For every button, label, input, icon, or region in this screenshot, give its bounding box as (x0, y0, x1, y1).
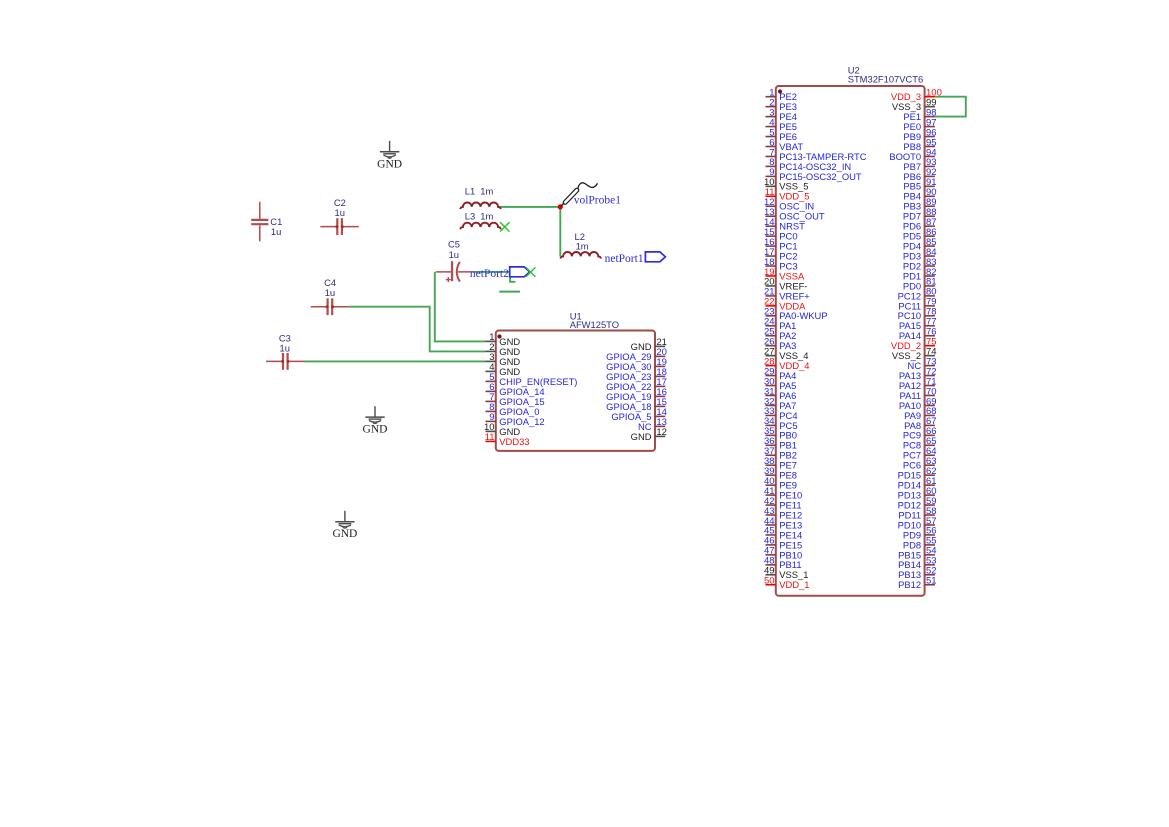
inductor L2 (561, 231, 601, 259)
U2 pin 32 PA7 (764, 396, 796, 411)
svg-text:L1: L1 (465, 186, 475, 197)
U2 pin 76 PA14 (899, 327, 937, 342)
U1 body (496, 331, 655, 451)
svg-text:netPort1: netPort1 (605, 253, 644, 265)
inductor L1 (460, 186, 500, 210)
U2 pin 31 PA6 (764, 386, 796, 401)
capacitor C4 (311, 277, 349, 315)
U2 reference label (848, 65, 924, 85)
U2 pin 43 PE12 (764, 506, 802, 521)
U2 pin 88 PD7 (903, 207, 937, 222)
U2 pin 38 PE7 (764, 456, 797, 471)
U2 pin 33 PC4 (764, 406, 798, 421)
U1 pin 10 GND (484, 422, 520, 437)
svg-text:STM32F107VCT6: STM32F107VCT6 (848, 74, 924, 85)
U2 pin 12 OSC_IN (764, 197, 814, 212)
svg-text:volProbe1: volProbe1 (574, 194, 622, 206)
svg-text:12: 12 (656, 427, 667, 438)
U2 pin 79 PC11 (898, 297, 936, 312)
U2 pin 69 PA10 (899, 396, 937, 411)
wire C3 to U1 pin3 (305, 360, 486, 362)
svg-text:GND: GND (332, 528, 357, 540)
U2 pin 96 PB9 (903, 127, 936, 142)
U2 pin 11 VDD_5 (765, 187, 810, 202)
U2 pin 62 PD15 (898, 466, 937, 481)
wire C5 to U1 pin1 (435, 272, 486, 342)
svg-text:VDD_1: VDD_1 (779, 579, 809, 590)
U2 pin 78 PC10 (898, 307, 937, 322)
U2 pin 46 PE15 (764, 536, 802, 551)
U2 pin 34 PC5 (764, 416, 798, 431)
U2 pin 92 PB6 (903, 167, 936, 182)
U2 pin 14 NRST (764, 217, 805, 232)
U2 pin 24 PA1 (764, 317, 796, 332)
U2 pin 4 PE5 (766, 117, 798, 132)
U1 pin 12 GND (631, 427, 667, 442)
wire L1 to junction (500, 206, 561, 208)
U2 pin 73 NC (908, 356, 937, 371)
U2 pin 15 PC0 (764, 227, 798, 242)
U2 pin 47 PB10 (764, 546, 802, 561)
U2 pin 95 PB8 (903, 137, 936, 152)
svg-text:1m: 1m (576, 240, 589, 251)
U2 pin 97 PE0 (903, 117, 936, 132)
no-connect X on L3 (500, 222, 509, 231)
U1 pin 9 GPIOA_12 (486, 412, 545, 427)
U2 pin 21 VREF+ (764, 287, 810, 302)
U1 pin 14 GPIOA_5 (611, 407, 667, 422)
U2 pin 65 PC8 (903, 436, 937, 451)
U2 pin 60 PD13 (898, 486, 937, 501)
U2 pin 80 PC12 (898, 287, 937, 302)
U2 pin 10 VSS_5 (764, 177, 808, 192)
U2 pin 37 PB2 (764, 446, 797, 461)
U2 pin 68 PA9 (904, 406, 937, 421)
U2 pin 3 PE4 (766, 107, 798, 122)
U2 pin 45 PE14 (764, 526, 802, 541)
capacitor C1 (251, 202, 282, 242)
U2 pin 50 VDD_1 (764, 576, 810, 591)
U2 pin 52 PB13 (898, 566, 936, 581)
U2 pin 64 PC7 (903, 446, 937, 461)
U2 pin 66 PC9 (903, 426, 937, 441)
probe volProbe1 (561, 183, 621, 207)
svg-text:PB12: PB12 (898, 579, 921, 590)
U1 pin 11 VDD33 (485, 432, 530, 447)
U2 pin 41 PE10 (764, 486, 802, 501)
U2 pin 91 PB5 (903, 177, 936, 192)
U2 pin 94 BOOT0 (889, 147, 936, 162)
U1 pin 8 GPIOA_0 (486, 402, 540, 417)
svg-text:11: 11 (485, 432, 495, 443)
U2 pin 16 PC1 (764, 237, 798, 252)
svg-text:1u: 1u (449, 249, 459, 260)
U2 pin 54 PB15 (898, 546, 936, 561)
U2 pin 29 PA4 (764, 366, 796, 381)
svg-text:1m: 1m (480, 210, 493, 221)
U2 pin 83 PD2 (903, 257, 937, 272)
U2 pin 98 PE1 (903, 107, 936, 122)
U2 pin 90 PB4 (903, 187, 936, 202)
U2 pin 49 VSS_1 (764, 566, 808, 581)
junction node (558, 204, 563, 209)
svg-text:1m: 1m (480, 186, 493, 197)
capacitor C3 (266, 332, 304, 370)
U1 reference label (570, 311, 619, 330)
U1 pin 1 GND (486, 332, 521, 347)
ground GND3 (332, 511, 357, 540)
U2 pin 27 VSS_4 (764, 346, 808, 361)
svg-text:AFW125TO: AFW125TO (570, 319, 619, 330)
svg-text:L3: L3 (465, 210, 475, 221)
U2 pin 51 PB12 (898, 576, 936, 591)
U2 pin 40 PE9 (764, 476, 797, 491)
svg-text:50: 50 (764, 576, 775, 587)
U1 pin 21 GND (631, 337, 667, 352)
wire dangling segment (499, 291, 520, 293)
U1 pin 4 GND (486, 362, 521, 377)
U2 pin 2 PE3 (766, 97, 798, 112)
U2 pin 58 PD11 (898, 506, 936, 521)
U2 pin 87 PD6 (903, 217, 937, 232)
U2 pin 85 PD4 (903, 237, 937, 252)
U2 pin 30 PA5 (764, 376, 796, 391)
U2 pin 13 OSC_OUT (764, 207, 825, 222)
U1 pin 3 GND (486, 352, 521, 367)
U2 pin 6 VBAT (766, 137, 804, 152)
U2 pin 53 PB14 (898, 556, 936, 571)
U2 pin 44 PE13 (764, 516, 802, 531)
U1 pin 19 GPIOA_30 (606, 357, 667, 372)
svg-text:GND: GND (631, 431, 652, 442)
U1 pin 5 CHIP_EN(RESET) (486, 372, 578, 387)
U2 pin 5 PE6 (766, 127, 798, 142)
U1 pin 2 GND (486, 342, 521, 357)
svg-text:GND: GND (377, 158, 402, 170)
ground GND2 (363, 406, 388, 435)
svg-text:1u: 1u (271, 226, 281, 237)
U1 pin 17 GPIOA_22 (606, 377, 667, 392)
U2 pin 25 PA2 (764, 327, 796, 342)
U1 pin 16 GPIOA_19 (606, 387, 667, 402)
U2 pin 26 PA3 (764, 337, 796, 352)
wire C5 to netPort2 (475, 271, 510, 273)
svg-text:VDD33: VDD33 (499, 436, 529, 447)
U2 pin 74 VSS_2 (892, 346, 937, 361)
svg-text:51: 51 (926, 576, 937, 587)
U1 pin 18 GPIOA_23 (606, 367, 667, 382)
inductor L3 (460, 210, 500, 229)
U2 pin 18 PC3 (764, 257, 798, 272)
U1 pin 6 GPIOA_14 (486, 382, 545, 397)
U2 body (776, 86, 925, 596)
svg-text:1u: 1u (280, 342, 290, 353)
U2 pin 71 PA12 (899, 376, 937, 391)
U2 pin 36 PB1 (764, 436, 797, 451)
U2 pin 84 PD3 (903, 247, 937, 262)
U2 pin 99 VSS_3 (892, 97, 937, 112)
U2 pin 17 PC2 (764, 247, 798, 262)
net port netPort1 (605, 252, 666, 265)
U2 pin 56 PD9 (903, 526, 937, 541)
wire stub below netPort2 (510, 277, 515, 282)
U2 pin 86 PD5 (903, 227, 937, 242)
IC U2 STM32F107VCT6 (764, 65, 942, 596)
U2 pin 59 PD12 (898, 496, 937, 511)
U2 pin 1 PE2 (766, 88, 798, 103)
U2 pin 100 VDD_3 (891, 88, 942, 103)
U2 pin 82 PD1 (903, 267, 937, 282)
ground GND1 (377, 141, 402, 170)
IC U1 AFW125TO (484, 311, 667, 451)
U1 pin 20 GPIOA_29 (606, 347, 667, 362)
U2 pin 89 PB3 (903, 197, 936, 212)
U2 pin 75 VDD_2 (891, 337, 937, 352)
U2 pin 23 PA0-WKUP (764, 307, 828, 322)
U2 pin 7 PC13-TAMPER-RTC (766, 147, 867, 162)
U2 pin 35 PB0 (764, 426, 797, 441)
capacitor C2 (320, 197, 358, 235)
U2 pin 20 VREF- (764, 277, 807, 292)
no-connect X on netPort2 (526, 267, 535, 276)
U2 pin 63 PC6 (903, 456, 937, 471)
svg-text:netPort2: netPort2 (470, 268, 509, 280)
wire U2 pin100 to pin98 (935, 97, 966, 117)
U2 pin 55 PD8 (903, 536, 937, 551)
net port netPort2 (470, 267, 530, 280)
U2 pin 28 VDD_4 (764, 356, 810, 371)
U2 pin 42 PE11 (764, 496, 802, 511)
U1 pin 15 GPIOA_18 (606, 397, 667, 412)
U2 pin 22 VDDA (764, 297, 806, 312)
svg-text:1u: 1u (335, 207, 345, 218)
wire junction to L2 (559, 207, 561, 257)
svg-text:C5: C5 (448, 239, 460, 250)
U2 pin 72 PA13 (899, 366, 937, 381)
U2 pin 9 PC15-OSC32_OUT (766, 167, 862, 182)
U2 pin 77 PA15 (899, 317, 937, 332)
U2 pin 48 PB11 (764, 556, 802, 571)
U2 pin 57 PD10 (898, 516, 937, 531)
U2 pin 93 PB7 (903, 157, 936, 172)
svg-text:GND: GND (363, 424, 388, 436)
capacitor C5 (436, 239, 475, 283)
U2 pin 61 PD14 (898, 476, 937, 491)
U2 pin 8 PC14-OSC32_IN (766, 157, 852, 172)
U1 pin 7 GPIOA_15 (486, 392, 545, 407)
U2 pin 39 PE8 (764, 466, 797, 481)
U2 pin 81 PD0 (903, 277, 937, 292)
U2 pin 70 PA11 (900, 386, 937, 401)
wire C4 to U1 pin2 (349, 307, 485, 352)
svg-text:1u: 1u (325, 287, 335, 298)
U1 pin 13 NC (638, 417, 667, 432)
U2 pin 19 VSSA (764, 267, 805, 282)
U2 pin 67 PA8 (904, 416, 937, 431)
